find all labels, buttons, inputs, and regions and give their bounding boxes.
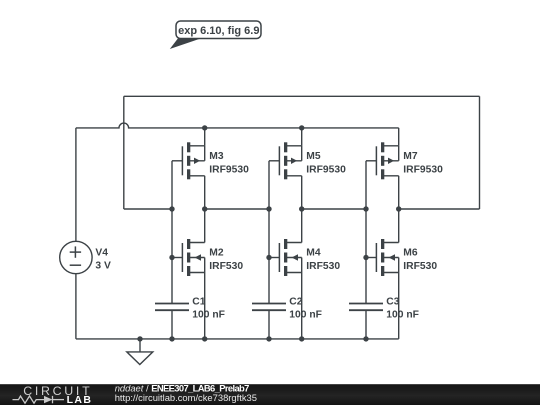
junction: stage3 input [363,206,368,211]
footer bar [0,384,540,405]
wire: VDD rail with hop over feedback wire [76,123,399,128]
capacitor C2 [252,304,286,311]
wire: stage2 output to stage3 input [302,208,366,210]
wire: M4 source to ground rail [301,273,303,339]
junction: M2 source on ground rail [202,336,207,341]
ground [127,339,153,365]
svg-text:IRF530: IRF530 [306,261,340,272]
svg-text:C1: C1 [192,297,205,308]
capacitor C1 [155,304,189,311]
svg-text:100 nF: 100 nF [289,310,322,321]
wire: C1 bottom lead [171,310,173,339]
transistor M4 (NMOS) [269,239,302,276]
svg-text:LAB: LAB [67,394,93,405]
wire: stage2 input column up (M5 gate) [268,161,270,209]
wire: C2 bottom lead [268,310,270,339]
svg-text:M4: M4 [306,248,321,259]
junction: node A stage1 input [169,206,174,211]
wire: M3 source to VDD rail [204,128,206,146]
wire: M2 drain to output node [204,209,206,243]
junction: M6 gate tap [363,255,368,260]
junction: stage1 output [202,206,207,211]
svg-text:IRF9530: IRF9530 [209,164,249,175]
svg-text:exp 6.10, fig 6.9: exp 6.10, fig 6.9 [178,25,259,37]
wire: feedback right vertical [479,96,481,209]
junction: C3 on ground rail [363,336,368,341]
svg-text:M5: M5 [306,151,321,162]
svg-text:IRF530: IRF530 [209,261,243,272]
wire: stage1 input column up (M3 gate) [171,161,173,209]
transistor M6 (NMOS) [366,239,399,276]
svg-text:100 nF: 100 nF [386,310,419,321]
wire: M3 drain to output node [204,176,206,209]
transistor M3 (PMOS) [172,142,205,179]
svg-text:C3: C3 [386,297,399,308]
wire: stage2 input column down to C2 [268,209,270,304]
wire: bottom ground rail [76,338,399,340]
wire: stage1 output to stage2 input [205,208,269,210]
CircuitLab logo [13,384,93,405]
junction: M4 source on ground rail [299,336,304,341]
svg-text:M2: M2 [209,248,224,259]
wire: M4 drain to output node [301,209,303,243]
wire: M5 drain to output node [301,176,303,209]
junction: stage3 output [396,206,401,211]
junction: ground tap on rail [137,336,142,341]
svg-text:M7: M7 [403,151,418,162]
junction: C2 on ground rail [266,336,271,341]
wire: M7 drain to output node [398,176,400,209]
wire: top feedback horizontal [124,95,480,97]
voltage source V4 [60,241,92,273]
junction: VDD rail at M5 source [299,125,304,130]
svg-text:IRF9530: IRF9530 [306,164,346,175]
wire: stage1 input column down to C1 [171,209,173,304]
svg-text:M6: M6 [403,248,418,259]
wire: stage3 input column down to C3 [365,209,367,304]
wire: stage3 input column up (M7 gate) [365,161,367,209]
junction: M4 gate tap [266,255,271,260]
junction: VDD rail at M3 source [202,125,207,130]
junction: stage2 input [266,206,271,211]
svg-text:http://circuitlab.com/cke738rg: http://circuitlab.com/cke738rgftk35 [115,392,257,403]
transistor M7 (PMOS) [366,142,399,179]
svg-text:V4: V4 [95,247,108,258]
junction: stage2 output [299,206,304,211]
wire: M7 source to VDD rail [398,128,400,146]
svg-text:100 nF: 100 nF [192,310,225,321]
svg-text:C2: C2 [289,297,302,308]
svg-text:IRF530: IRF530 [403,261,437,272]
svg-text:M3: M3 [209,151,224,162]
wire: V4 positive lead up to VDD rail [75,128,77,241]
wire: feedback left vertical [123,96,125,209]
wire: M2 source to ground rail [204,273,206,339]
wire: M6 source to ground rail [398,273,400,339]
junction: M2 gate tap [169,255,174,260]
transistor M2 (NMOS) [172,239,205,276]
wire: M6 drain to output node [398,209,400,243]
annotation callout "exp 6.10, fig 6.9" [170,21,261,49]
svg-text:IRF9530: IRF9530 [403,164,443,175]
wire: M5 source to VDD rail [301,128,303,146]
wire: V4 negative lead down to ground rail [75,274,77,339]
transistor M5 (PMOS) [269,142,302,179]
capacitor C3 [349,304,383,311]
wire: C3 bottom lead [365,310,367,339]
junction: C1 on ground rail [169,336,174,341]
svg-text:3 V: 3 V [95,260,111,271]
wire: feedback arm to node A (stage1 input) [124,208,172,210]
wire: stage3 output to feedback [399,208,480,210]
